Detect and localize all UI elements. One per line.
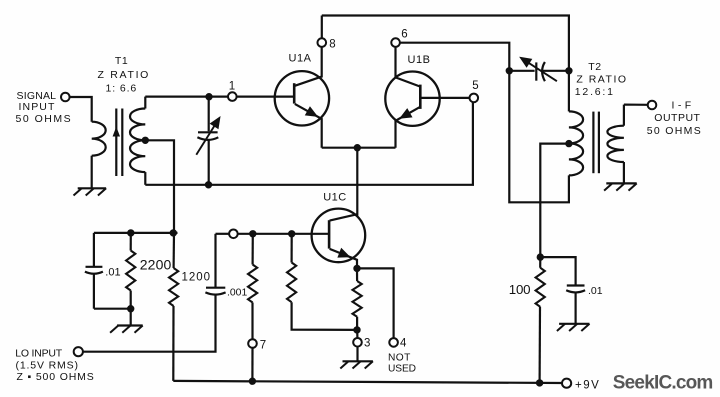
svg-text:8: 8 bbox=[329, 39, 335, 51]
node SIGNAL INPUT terminal bbox=[61, 93, 70, 102]
wire 100 ohm top to .01 cap bbox=[540, 257, 575, 285]
wire .01 left bottom bbox=[94, 274, 131, 309]
svg-text:U1A: U1A bbox=[289, 53, 312, 65]
variable capacitor C1 arrow bbox=[196, 117, 220, 155]
variable capacitor C2 right lead bbox=[541, 70, 569, 72]
wire C2 to T2 primary bbox=[568, 71, 570, 112]
node pin 8 terminal bbox=[318, 38, 327, 47]
svg-text:I-F: I-F bbox=[672, 100, 695, 112]
arrow on T1 core bbox=[113, 128, 119, 136]
wire T1 secondary bottom to pin 5 column bbox=[145, 102, 473, 185]
svg-text:Z RATIO: Z RATIO bbox=[576, 74, 627, 86]
junction dot 100 ohm top bbox=[537, 254, 543, 260]
variable capacitor C1 top lead bbox=[208, 97, 210, 132]
wire U1C emitter to pin 4 bbox=[357, 268, 394, 338]
label 2200 bbox=[140, 257, 172, 273]
label LO INPUT (1.5V RMS) Z=500 OHMS bbox=[15, 347, 94, 383]
svg-text:7: 7 bbox=[260, 340, 266, 352]
wire .001 cap to pin 2 bbox=[216, 233, 230, 235]
label .01 right bbox=[588, 285, 603, 297]
transformer T1 secondary winding bbox=[130, 97, 145, 185]
capacitor .01 right plates bbox=[566, 286, 585, 293]
svg-text:100: 100 bbox=[509, 282, 531, 297]
junction dot 2200 bottom bbox=[128, 306, 134, 312]
wire U1A U1B emitters bbox=[322, 147, 396, 149]
node pin 4 terminal bbox=[389, 338, 398, 347]
junction dot base resistor top bbox=[289, 231, 295, 237]
label .01 left bbox=[105, 266, 120, 278]
junction dot 100 ohm rail bbox=[536, 380, 542, 386]
wire pin 7 to bottom rail bbox=[251, 348, 253, 381]
wire T2 secondary to I-F output bbox=[624, 103, 648, 105]
ground under T2 secondary bbox=[604, 183, 637, 190]
svg-text:4: 4 bbox=[400, 338, 407, 350]
svg-text:Z ▪ 500 OHMS: Z ▪ 500 OHMS bbox=[17, 371, 95, 383]
svg-text:T2: T2 bbox=[588, 61, 601, 73]
wire pin 2 to U1C base bbox=[238, 233, 329, 235]
resistor 2200 bbox=[126, 233, 135, 309]
node LO INPUT terminal bbox=[74, 347, 83, 356]
wire pin 8 to top rail bbox=[321, 16, 323, 39]
label U1C bbox=[323, 192, 347, 204]
label T1 Z RATIO 1:6.6 bbox=[98, 55, 151, 94]
wire bottom +9V rail bbox=[173, 381, 562, 383]
junction dot emitters bbox=[354, 145, 360, 151]
svg-text:3: 3 bbox=[364, 338, 370, 350]
variable capacitor C2 left lead bbox=[509, 70, 534, 72]
transistor U1B circle bbox=[385, 72, 439, 126]
node pin 3 terminal bbox=[353, 338, 362, 347]
ground under .01 right bbox=[557, 324, 590, 331]
wire to pin 3 bbox=[356, 330, 358, 338]
label 1200 bbox=[182, 272, 212, 284]
wire emitters to U1C collector bbox=[356, 148, 358, 216]
resistor bias upper bbox=[248, 234, 257, 339]
watermark SeekIC.com bbox=[613, 372, 713, 393]
label pin 8 bbox=[329, 39, 335, 51]
svg-text:LO INPUT: LO INPUT bbox=[15, 347, 63, 359]
wire signal input to T1 primary bbox=[70, 97, 92, 122]
wire pin 5 to U1B base bbox=[420, 97, 469, 99]
capacitor .01 left column bbox=[93, 233, 95, 266]
variable capacitor C1 plates bbox=[197, 132, 218, 140]
label pin 4 bbox=[400, 338, 407, 350]
svg-text:Z RATIO: Z RATIO bbox=[98, 69, 151, 81]
junction dot C2 right bbox=[566, 68, 572, 74]
label pin 1 bbox=[229, 81, 235, 93]
label pin 3 bbox=[364, 338, 370, 350]
junction dot 1200 top bbox=[170, 230, 176, 236]
node pin 5 terminal bbox=[470, 94, 479, 103]
transistor U1B collector bbox=[396, 47, 420, 87]
node I-F OUTPUT terminal bbox=[648, 101, 657, 110]
label U1A bbox=[289, 53, 312, 65]
wire T2 primary return loop bbox=[509, 71, 569, 203]
variable capacitor C2 plates bbox=[536, 62, 545, 81]
wire top rail bbox=[322, 16, 569, 71]
svg-text:12.6:1: 12.6:1 bbox=[575, 86, 615, 98]
variable capacitor C1 bottom lead bbox=[208, 140, 210, 185]
transformer T2 secondary winding bbox=[607, 105, 624, 184]
svg-text:INPUT: INPUT bbox=[19, 101, 56, 113]
label pin 6 bbox=[401, 29, 407, 41]
wire pin 3 to ground bbox=[356, 347, 358, 362]
wire T1 center tap to 1200 column bbox=[145, 140, 174, 233]
junction dot C2 left bbox=[506, 68, 512, 74]
node pin 1 terminal bbox=[228, 92, 237, 101]
svg-text:SeekIC.com: SeekIC.com bbox=[613, 372, 713, 393]
transformer T2 core bbox=[593, 112, 599, 174]
node pin 2 terminal bbox=[229, 230, 238, 239]
svg-text:.001: .001 bbox=[227, 288, 247, 299]
label SIGNAL INPUT 50 OHMS bbox=[16, 90, 73, 125]
resistor 100 bbox=[536, 257, 545, 383]
junction dot bias column bbox=[250, 231, 256, 237]
junction dot 2200 top bbox=[128, 230, 134, 236]
svg-text:50 OHMS: 50 OHMS bbox=[647, 125, 702, 137]
label .001 bbox=[227, 288, 247, 299]
wire T2 center tap to 100 ohm resistor bbox=[540, 144, 569, 258]
wire pin 6 to variable capacitor C2 bbox=[400, 43, 509, 71]
svg-text:.01: .01 bbox=[105, 266, 120, 278]
transistor U1B base bar bbox=[419, 85, 422, 109]
wire left bias row bbox=[94, 232, 178, 234]
label 100 bbox=[509, 282, 531, 297]
transformer T1 primary winding bbox=[92, 122, 106, 189]
transistor U1C collector bbox=[330, 214, 358, 220]
transistor U1C circle bbox=[312, 209, 366, 263]
svg-text:U1B: U1B bbox=[408, 54, 431, 66]
ground under pin 3 bbox=[340, 361, 373, 368]
label NOT USED bbox=[388, 353, 416, 375]
svg-text:6: 6 bbox=[401, 29, 407, 41]
svg-text:50 OHMS: 50 OHMS bbox=[16, 113, 73, 125]
svg-text:1: 6.6: 1: 6.6 bbox=[105, 82, 137, 94]
transformer T2 primary winding bbox=[569, 111, 583, 175]
ground under 2200 bbox=[110, 326, 143, 333]
transformer T1 core bbox=[116, 109, 122, 177]
node T1 center tap bbox=[142, 137, 148, 143]
svg-text:NOT: NOT bbox=[388, 353, 411, 364]
wire pin 2 corner down bbox=[214, 234, 216, 287]
junction dot resistor bottom bbox=[354, 327, 360, 333]
wire T1 secondary top to pin 1 bbox=[145, 95, 228, 97]
label I-F OUTPUT 50 OHMS bbox=[647, 100, 702, 137]
resistor U1C emitter bbox=[353, 268, 362, 330]
wire pin 1 to U1A base bbox=[237, 95, 295, 97]
label pin 5 bbox=[472, 80, 478, 92]
svg-text:U1C: U1C bbox=[323, 192, 347, 204]
resistor U1C base-emitter bbox=[287, 234, 357, 330]
junction dot pin 7 rail bbox=[249, 378, 255, 384]
svg-text:SIGNAL: SIGNAL bbox=[17, 90, 57, 102]
wire .01 right to ground bbox=[574, 293, 576, 324]
node T2 center tap bbox=[566, 140, 572, 146]
svg-text:+9V: +9V bbox=[575, 379, 600, 391]
resistor 1200 bbox=[169, 233, 178, 381]
svg-text:USED: USED bbox=[388, 364, 416, 375]
label +9V bbox=[575, 379, 600, 391]
transistor U1C emitter bbox=[330, 249, 357, 269]
svg-text:.01: .01 bbox=[588, 285, 603, 297]
label pin 7 bbox=[260, 340, 266, 352]
transistor U1A emitter bbox=[295, 104, 322, 148]
node pin 6 terminal bbox=[391, 38, 400, 47]
svg-text:(1.5V RMS): (1.5V RMS) bbox=[16, 359, 79, 371]
transistor U1B emitter bbox=[396, 107, 420, 148]
svg-text:2200: 2200 bbox=[140, 257, 172, 273]
svg-text:1200: 1200 bbox=[182, 272, 212, 284]
variable capacitor C2 arrow bbox=[520, 57, 557, 81]
label T2 Z RATIO 12.6:1 bbox=[575, 61, 628, 98]
transistor U1C base bar bbox=[328, 220, 331, 248]
wire .001 cap to LO input bbox=[83, 295, 216, 352]
ground under T1 primary bbox=[74, 188, 107, 195]
capacitor .001 plates bbox=[205, 288, 225, 295]
node +9V terminal bbox=[562, 379, 571, 388]
junction dot before pin 1 bbox=[206, 94, 212, 100]
capacitor .01 left plates bbox=[85, 267, 103, 274]
transistor U1A circle bbox=[275, 71, 329, 125]
svg-text:OUTPUT: OUTPUT bbox=[654, 112, 700, 124]
transistor U1A collector bbox=[295, 47, 322, 86]
transistor U1A base bar bbox=[293, 83, 296, 103]
node pin 7 terminal bbox=[248, 339, 257, 348]
label U1B bbox=[408, 54, 431, 66]
svg-text:5: 5 bbox=[472, 80, 478, 92]
svg-text:T1: T1 bbox=[115, 55, 128, 67]
junction dot C1 bottom bbox=[205, 182, 211, 188]
svg-text:1: 1 bbox=[229, 81, 235, 93]
wire 2200 bottom to ground bbox=[130, 309, 132, 326]
junction dot U1C emitter bbox=[354, 265, 360, 271]
